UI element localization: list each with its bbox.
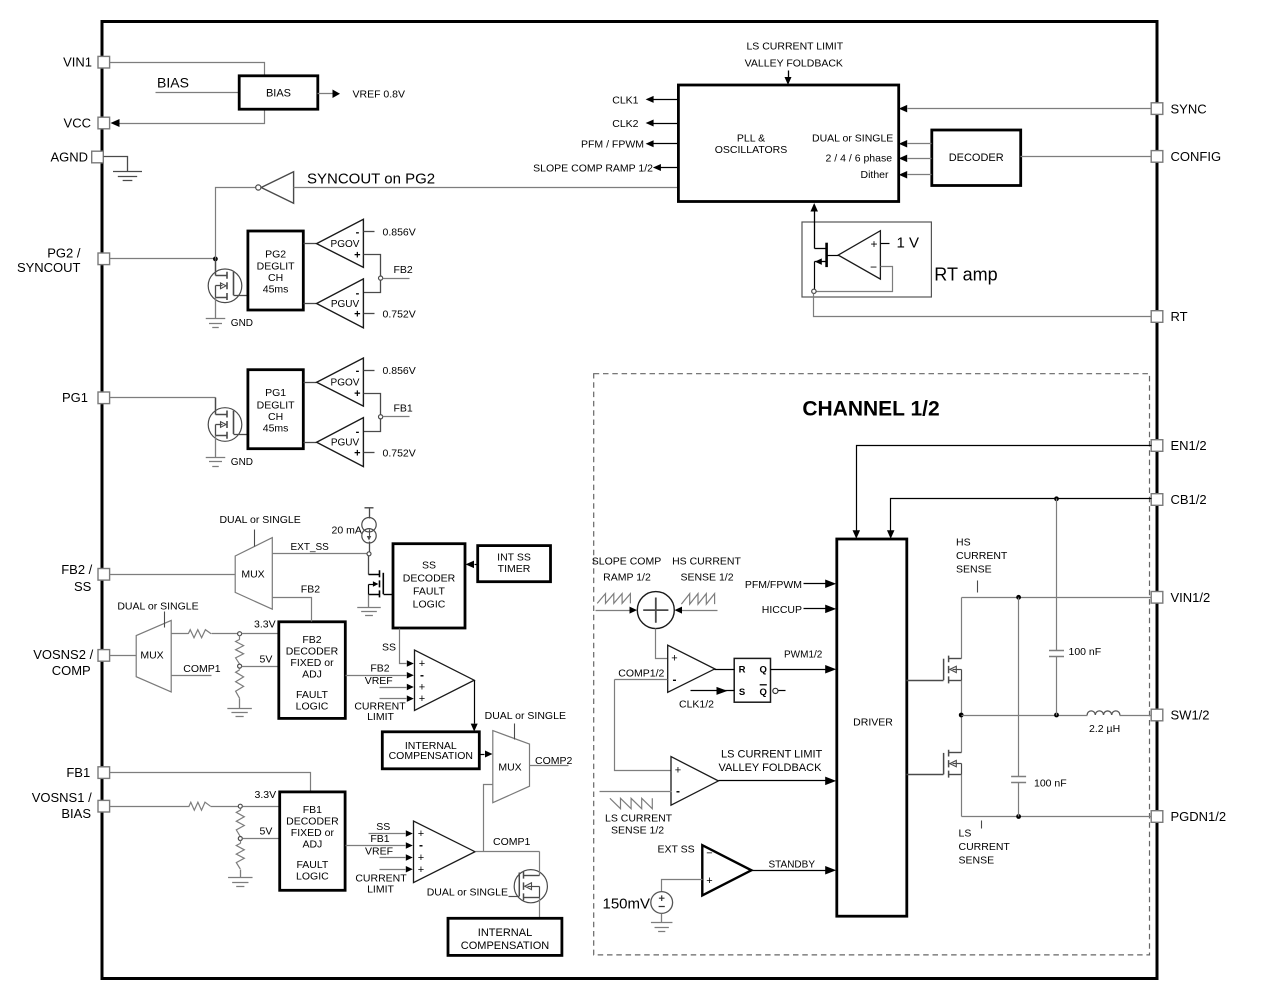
- wire 5V to decoder: [242, 666, 279, 668]
- svg-text:SENSE 1/2: SENSE 1/2: [611, 825, 664, 837]
- wire SS into amp: [400, 629, 407, 664]
- svg-text:EXT_SS: EXT_SS: [291, 542, 330, 553]
- wire CLK1/2 to S: [691, 690, 735, 692]
- svg-text:VREF: VREF: [365, 845, 393, 857]
- block PG1 DEGLITCH 45ms: [248, 370, 303, 449]
- svg-text:20 mA: 20 mA: [332, 525, 362, 537]
- pointer line: [164, 612, 166, 628]
- block DRIVER: [837, 539, 907, 916]
- svg-text:+: +: [675, 764, 681, 776]
- svg-text:CHANNEL 1/2: CHANNEL 1/2: [802, 397, 939, 420]
- wire inductor to SW pin: [1120, 715, 1152, 717]
- pin SYNC: [1151, 103, 1163, 115]
- wire CLK1 output: [653, 99, 679, 101]
- wire PG1 pin net: [110, 397, 216, 399]
- svg-text:45ms: 45ms: [263, 284, 289, 296]
- svg-text:VOSNS1 /: VOSNS1 /: [32, 790, 92, 805]
- junction SW cap: [1054, 713, 1059, 718]
- sawtooth ls sense: [610, 798, 652, 808]
- svg-text:SS: SS: [422, 559, 436, 571]
- box RT amp: [802, 222, 931, 297]
- svg-text:EN1/2: EN1/2: [1171, 438, 1207, 453]
- wire FB1 sense: [364, 394, 381, 432]
- wire SS into amp1: [369, 833, 406, 835]
- wire CURRENT LIMIT into amp: [380, 698, 407, 700]
- current source 20 mA: [369, 508, 371, 519]
- svg-text:−: −: [706, 848, 712, 860]
- wire 0.856V ref: [364, 231, 375, 233]
- svg-text:LS CURRENT LIMIT: LS CURRENT LIMIT: [746, 41, 843, 53]
- svg-text:CH: CH: [268, 411, 283, 423]
- wire standby to driver: [752, 870, 827, 872]
- node 5V tap (fb1): [238, 837, 242, 841]
- svg-text:-: -: [673, 672, 677, 686]
- wire CLK2 output: [653, 123, 679, 125]
- pin VOSNS2/COMP: [98, 650, 110, 662]
- svg-text:RT: RT: [1171, 309, 1188, 324]
- ground GND under Q-PG1: [215, 436, 217, 458]
- svg-text:+: +: [354, 309, 360, 321]
- wire EN1/2 to driver: [857, 446, 1152, 531]
- source 150mV: [651, 892, 673, 914]
- svg-text:PGOV: PGOV: [331, 239, 360, 250]
- wire comp to mux: [480, 754, 485, 756]
- wire 5V to decoder: [243, 838, 280, 840]
- comparator STANDBY: [702, 845, 751, 895]
- svg-text:VIN1: VIN1: [63, 55, 92, 70]
- mux VOSNS2 select: [136, 620, 171, 692]
- pin PG1: [98, 392, 110, 404]
- wire VOSNS2 pin to mux: [110, 655, 137, 657]
- svg-text:+: +: [354, 388, 360, 400]
- wire COMP1 from mux: [172, 675, 212, 677]
- svg-text:SYNCOUT: SYNCOUT: [17, 260, 81, 275]
- pointer line: [254, 530, 256, 547]
- svg-text:VALLEY FOLDBACK: VALLEY FOLDBACK: [745, 57, 843, 69]
- svg-text:BIAS: BIAS: [157, 75, 189, 91]
- svg-text:LS CURRENT LIMIT: LS CURRENT LIMIT: [721, 749, 823, 761]
- svg-text:SLOPE COMP: SLOPE COMP: [592, 556, 661, 568]
- comparator PGOV (PG2): [304, 243, 317, 245]
- junction SW left: [959, 713, 964, 718]
- svg-text:OSCILLATORS: OSCILLATORS: [715, 144, 788, 156]
- svg-text:FIXED or: FIXED or: [291, 827, 335, 839]
- svg-text:-: -: [420, 668, 424, 682]
- pin FB2/SS: [98, 569, 110, 581]
- ground under Q-SS: [368, 595, 370, 608]
- wire COMP1/2 input: [615, 679, 668, 681]
- summer sigma: [637, 592, 674, 629]
- svg-text:HS: HS: [956, 537, 971, 549]
- pin FB1: [98, 767, 110, 779]
- svg-text:DECODER: DECODER: [286, 646, 339, 658]
- svg-text:LOGIC: LOGIC: [413, 599, 446, 611]
- pin CONFIG: [1151, 151, 1163, 163]
- svg-text:+: +: [418, 852, 424, 864]
- svg-text:COMP1: COMP1: [183, 663, 221, 675]
- svg-text:FB1: FB1: [303, 804, 322, 816]
- svg-text:PG2 /: PG2 /: [47, 245, 81, 260]
- svg-text:CONFIG: CONFIG: [1171, 149, 1222, 164]
- svg-text:VCC: VCC: [64, 115, 91, 130]
- junction PGDN cap: [1016, 814, 1021, 819]
- dashed box CHANNEL 1/2: [594, 374, 1150, 955]
- svg-text:DECODER: DECODER: [949, 152, 1004, 164]
- wire PGDN1/2 rail: [962, 816, 1152, 818]
- svg-text:COMP1/2: COMP1/2: [618, 667, 664, 679]
- wire LS sense input: [600, 791, 672, 793]
- block DECODER: [932, 130, 1021, 186]
- svg-text:Q: Q: [760, 687, 767, 698]
- wire SW1/2 rail: [962, 715, 1088, 717]
- svg-text:SENSE 1/2: SENSE 1/2: [680, 572, 733, 584]
- svg-text:PFM / FPWM: PFM / FPWM: [581, 139, 644, 151]
- svg-text:2.2 µH: 2.2 µH: [1089, 723, 1120, 735]
- wire mux FB2 out to decoder: [273, 598, 312, 622]
- svg-text:PG2: PG2: [265, 248, 286, 260]
- svg-text:DECODER: DECODER: [403, 573, 456, 585]
- svg-text:HS CURRENT: HS CURRENT: [672, 556, 741, 568]
- pin EN1/2: [1151, 440, 1163, 452]
- pointer line: [514, 724, 516, 740]
- wire RT amp to PLL: [814, 212, 816, 249]
- svg-text:AGND: AGND: [50, 149, 88, 164]
- svg-text:MUX: MUX: [241, 569, 264, 581]
- mux FB2/SS select: [235, 538, 272, 610]
- pin VOSNS1/BIAS: [98, 800, 110, 812]
- svg-text:1 V: 1 V: [897, 235, 920, 252]
- svg-text:5V: 5V: [260, 654, 273, 666]
- capacitor VIN 100nF: [1018, 598, 1020, 777]
- block INT SS TIMER: [478, 546, 551, 582]
- svg-text:150mV: 150mV: [603, 895, 651, 912]
- svg-text:FB2: FB2: [301, 584, 320, 596]
- wire HICCUP into driver: [804, 608, 827, 610]
- wire FB2 into amp: [346, 675, 407, 677]
- svg-text:FB2 /: FB2 /: [61, 562, 92, 577]
- svg-text:COMPENSATION: COMPENSATION: [389, 750, 473, 762]
- svg-text:PFM/FPWM: PFM/FPWM: [745, 579, 802, 591]
- wire BIAS input: [156, 92, 240, 94]
- wire RT pin net: [814, 294, 1152, 317]
- ground FB2 divider: [239, 699, 241, 709]
- svg-text:0.752V: 0.752V: [383, 309, 416, 321]
- wire HS gate from driver: [907, 680, 944, 682]
- wire DUAL or SINGLE decode: [908, 143, 932, 145]
- svg-text:-: -: [356, 288, 360, 300]
- svg-text:SLOPE COMP RAMP 1/2: SLOPE COMP RAMP 1/2: [533, 162, 653, 174]
- svg-text:BIAS: BIAS: [61, 806, 91, 821]
- svg-text:-: -: [356, 227, 360, 239]
- svg-text:CURRENT: CURRENT: [956, 550, 1008, 562]
- svg-text:LIMIT: LIMIT: [367, 711, 394, 723]
- resistor R-FB2-bot: [239, 669, 241, 670]
- op-amp RT 1V: [838, 231, 880, 279]
- resistor R-FB2-mid: [239, 636, 241, 640]
- wire RT feedback loop: [817, 267, 893, 292]
- svg-text:ADJ: ADJ: [302, 669, 322, 681]
- comparator PGOV (PG1): [304, 382, 317, 384]
- transistor HS FET: [961, 598, 963, 659]
- svg-text:GND: GND: [231, 318, 253, 329]
- wire comp1/2 down to LS comp: [615, 680, 672, 771]
- block INTERNAL COMPENSATION ch2: [382, 732, 479, 769]
- svg-text:+: +: [354, 249, 360, 261]
- wire COMP1 net: [476, 851, 540, 853]
- svg-text:COMP1: COMP1: [493, 836, 531, 848]
- wire VIN1/2 rail: [962, 597, 1152, 599]
- block U-BIAS: [239, 76, 318, 109]
- node RT sense: [812, 289, 816, 293]
- wire PG2 pin net: [110, 258, 216, 260]
- wire SW node: [961, 681, 963, 753]
- svg-text:0.856V: 0.856V: [383, 365, 416, 377]
- wire CURRENT LIMIT into amp1: [380, 869, 406, 871]
- svg-text:FAULT: FAULT: [296, 689, 328, 701]
- transistor LS FET: [949, 752, 962, 754]
- node 5V tap: [238, 664, 242, 668]
- svg-text:DRIVER: DRIVER: [853, 716, 893, 728]
- svg-text:SS: SS: [376, 821, 390, 833]
- wire EXT_SS: [273, 553, 368, 555]
- wire VREF into amp1: [380, 857, 406, 859]
- svg-text:PG1: PG1: [265, 387, 286, 399]
- svg-text:COMP2: COMP2: [535, 755, 573, 767]
- comparator PGUV (PG1): [304, 442, 317, 444]
- wire VREF into amp: [380, 687, 407, 689]
- svg-text:ADJ: ADJ: [302, 839, 322, 851]
- wire LS gate from driver: [907, 774, 944, 776]
- svg-text:0.856V: 0.856V: [383, 226, 416, 238]
- wire FB2/SS pin to mux: [110, 574, 236, 576]
- svg-text:-: -: [356, 365, 360, 377]
- svg-text:CLK1: CLK1: [612, 94, 638, 106]
- svg-text:GND: GND: [231, 457, 253, 468]
- svg-text:COMPENSATION: COMPENSATION: [461, 940, 549, 952]
- ground 150mV: [661, 914, 663, 923]
- ground GND under Q-PG2: [215, 298, 217, 319]
- wire COMP2 output: [530, 765, 569, 767]
- svg-text:SW1/2: SW1/2: [1171, 708, 1210, 723]
- pointer ls sense: [981, 821, 983, 829]
- sawtooth hs sense: [681, 594, 714, 605]
- svg-text:DUAL or SINGLE: DUAL or SINGLE: [812, 133, 893, 145]
- svg-text:0.752V: 0.752V: [383, 447, 416, 459]
- transistor Q-SS discharge: [368, 556, 370, 575]
- svg-text:VIN1/2: VIN1/2: [1171, 590, 1211, 605]
- ground FB1 divider: [240, 870, 242, 878]
- block INTERNAL COMPENSATION ch1: [448, 918, 562, 955]
- mux COMP select: [493, 731, 530, 803]
- svg-text:RT amp: RT amp: [934, 265, 997, 285]
- svg-text:LS: LS: [959, 828, 972, 840]
- svg-text:+: +: [671, 653, 677, 665]
- svg-text:CB1/2: CB1/2: [1171, 492, 1207, 507]
- svg-text:FB2: FB2: [370, 663, 389, 675]
- svg-text:DUAL or SINGLE: DUAL or SINGLE: [219, 514, 300, 526]
- svg-text:DECODER: DECODER: [286, 816, 339, 828]
- svg-text:3.3V: 3.3V: [254, 619, 276, 631]
- junction PG2 node: [213, 257, 218, 262]
- svg-text:FB1: FB1: [66, 765, 90, 780]
- svg-text:DEGLIT: DEGLIT: [257, 399, 296, 411]
- svg-text:DUAL or SINGLE: DUAL or SINGLE: [117, 601, 198, 613]
- svg-text:FIXED or: FIXED or: [290, 657, 334, 669]
- svg-text:+: +: [419, 693, 425, 705]
- wire 0.752V ref: [364, 452, 375, 454]
- comparator LS current limit: [671, 757, 718, 806]
- pin PG2/SYNCOUT: [98, 253, 110, 265]
- block PLL & OSCILLATORS: [678, 85, 898, 202]
- inductor 2.2uH: [1087, 711, 1120, 715]
- comparator PGUV (PG2): [304, 303, 317, 305]
- svg-text:FAULT: FAULT: [296, 859, 328, 871]
- wire ramp into sigma: [596, 610, 631, 612]
- svg-text:BIAS: BIAS: [266, 87, 291, 99]
- wire sigma to pwm comp: [656, 629, 668, 659]
- svg-text:STANDBY: STANDBY: [769, 860, 816, 871]
- inverter SYNCOUT buffer: [261, 172, 293, 203]
- svg-text:DUAL or SINGLE: DUAL or SINGLE: [427, 886, 508, 898]
- svg-text:Q: Q: [760, 665, 767, 676]
- svg-text:-: -: [676, 784, 680, 798]
- pointer hs sense: [977, 581, 979, 593]
- wire FB2 sense: [364, 255, 381, 293]
- latch RS flip-flop: [734, 658, 770, 702]
- svg-text:COMP: COMP: [52, 663, 91, 678]
- svg-text:+: +: [354, 447, 360, 459]
- comparator PWM: [668, 645, 715, 692]
- block PG2 DEGLITCH 45ms: [248, 231, 303, 310]
- svg-text:SS: SS: [382, 642, 396, 654]
- resistor R-FB1-bot: [240, 841, 242, 844]
- wire CB1/2 to driver: [891, 499, 1152, 531]
- svg-text:2 / 4 / 6 phase: 2 / 4 / 6 phase: [826, 153, 893, 165]
- wire SYNC into PLL: [908, 108, 1152, 110]
- svg-text:3.3V: 3.3V: [255, 789, 277, 801]
- node EXT_SS junction: [367, 552, 371, 556]
- wire 2/4/6 phase decode: [908, 158, 932, 160]
- svg-text:SENSE: SENSE: [959, 855, 995, 867]
- wire PWM1/2 to driver: [771, 669, 827, 671]
- wire COMP1 into mux: [484, 785, 493, 852]
- svg-text:CH: CH: [268, 272, 283, 284]
- svg-text:TIMER: TIMER: [498, 563, 531, 575]
- resistor R-FB2-top: [172, 633, 189, 635]
- block SS DECODER FAULT LOGIC: [393, 544, 465, 628]
- svg-text:HICCUP: HICCUP: [762, 604, 802, 616]
- svg-text:R: R: [739, 665, 746, 676]
- wire 3.3V to decoder: [242, 633, 279, 635]
- wire amp out to internal comp: [474, 681, 476, 724]
- node 3.3V tap: [238, 632, 242, 636]
- wire VIN1 to BIAS block: [110, 63, 265, 77]
- svg-text:LOGIC: LOGIC: [296, 871, 329, 883]
- block FB2 DECODER: [279, 622, 346, 719]
- wire SLOPE COMP RAMP output: [660, 167, 679, 169]
- svg-text:INTERNAL: INTERNAL: [478, 927, 532, 939]
- svg-text:CLK2: CLK2: [612, 118, 638, 130]
- svg-text:RAMP 1/2: RAMP 1/2: [603, 572, 651, 584]
- svg-text:VALLEY FOLDBACK: VALLEY FOLDBACK: [719, 762, 823, 774]
- wire PFM/FPWM into driver: [804, 583, 827, 585]
- resistor R-FB1-top: [110, 806, 190, 808]
- wire FB1 into amp1: [346, 845, 406, 847]
- svg-text:SS: SS: [74, 579, 92, 594]
- svg-text:100 nF: 100 nF: [1069, 646, 1102, 658]
- svg-text:-: -: [356, 426, 360, 438]
- ground at AGND: [104, 157, 128, 172]
- svg-text:SYNC: SYNC: [1171, 101, 1207, 116]
- svg-text:−: −: [870, 260, 877, 274]
- svg-text:VREF: VREF: [365, 675, 393, 687]
- svg-text:PGOV: PGOV: [331, 378, 360, 389]
- wire sense into sigma: [682, 610, 718, 612]
- pin VIN1/2: [1151, 592, 1163, 604]
- wire 0.856V ref: [364, 370, 375, 372]
- wire to inverter: [216, 188, 256, 259]
- pin RT: [1151, 311, 1163, 323]
- svg-text:S: S: [739, 687, 745, 698]
- bubble Qbar: [773, 688, 778, 693]
- wire LS source to PGDN: [961, 775, 963, 817]
- svg-text:FAULT: FAULT: [413, 586, 445, 598]
- op-amp error amp 2: [415, 650, 475, 710]
- wire to internal comp 1: [539, 898, 541, 919]
- transistor Q-COMP single/dual: [514, 870, 547, 903]
- svg-text:MUX: MUX: [498, 762, 521, 774]
- node 3.3V tap (fb1): [238, 804, 242, 808]
- svg-text:DUAL or SINGLE: DUAL or SINGLE: [485, 710, 566, 722]
- svg-text:PGDN1/2: PGDN1/2: [1171, 809, 1227, 824]
- block FB1 DECODER: [280, 792, 345, 890]
- svg-text:LIMIT: LIMIT: [367, 883, 394, 895]
- transistor RT follower: [825, 243, 828, 267]
- sawtooth slope comp: [597, 594, 630, 604]
- wire BIAS block to VCC: [114, 110, 265, 124]
- wire FB1 pin to decoder: [110, 773, 311, 792]
- wire foldback into PLL top: [788, 71, 790, 78]
- pin CB1/2: [1151, 494, 1163, 506]
- wire inverter to PLL: [294, 187, 679, 189]
- resistor R-FB1-mid: [240, 809, 242, 811]
- wire LS comp to driver: [719, 780, 827, 782]
- svg-text:SYNCOUT on PG2: SYNCOUT on PG2: [307, 171, 435, 188]
- svg-text:+: +: [419, 681, 425, 693]
- wire 3.3V to decoder: [243, 806, 280, 808]
- svg-text:+: +: [870, 237, 877, 251]
- svg-text:MUX: MUX: [140, 650, 163, 662]
- svg-text:SENSE: SENSE: [956, 564, 992, 576]
- wire VREF output: [318, 93, 335, 95]
- wire Dither decode: [908, 174, 932, 176]
- wire 150mV to +: [662, 880, 703, 892]
- wire INT SS TIMER to SS decoder: [475, 564, 478, 566]
- pin VCC: [98, 117, 110, 129]
- svg-text:CLK1/2: CLK1/2: [679, 698, 714, 710]
- svg-text:5V: 5V: [260, 826, 273, 838]
- wire CONFIG to DECODER: [1021, 156, 1152, 158]
- transistor Q-PG1 open-drain: [208, 408, 242, 442]
- pin PGDN1/2: [1151, 811, 1163, 823]
- junction VIN cap: [1016, 595, 1021, 600]
- svg-text:CURRENT: CURRENT: [959, 841, 1011, 853]
- svg-text:45ms: 45ms: [263, 422, 289, 434]
- svg-text:PG1: PG1: [62, 390, 88, 405]
- junction CB bootstrap: [1054, 496, 1059, 501]
- svg-text:FB2: FB2: [302, 634, 321, 646]
- svg-text:VOSNS2 /: VOSNS2 /: [33, 647, 93, 662]
